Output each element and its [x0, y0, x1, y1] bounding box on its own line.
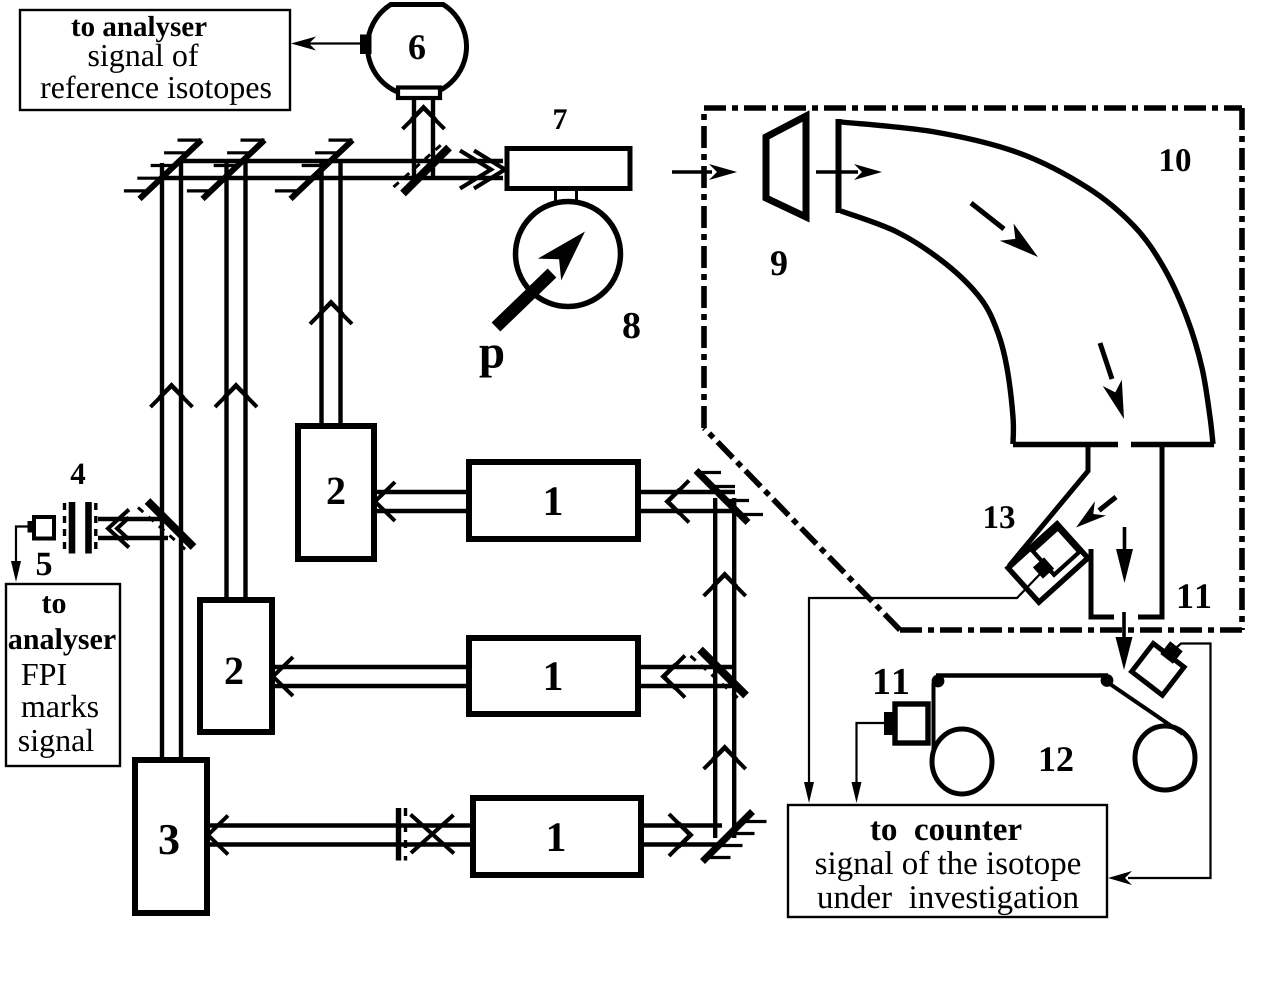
arrow into 13 [1099, 497, 1116, 511]
tape top [936, 673, 1108, 677]
vertical beam 2 [224, 163, 228, 600]
tape guide dot left [932, 675, 945, 688]
laser box 1 (middle) [469, 638, 638, 714]
label 12 [1041, 747, 1073, 771]
beamsplitter at 6 [403, 148, 449, 194]
dye laser box 2 (lower) [200, 600, 272, 732]
pressure gauge 8 [554, 188, 557, 203]
mirror top-right [696, 471, 748, 523]
beam right of 1(top) [638, 509, 735, 513]
beamsplitter to FPI [148, 501, 194, 547]
arrow to lower slit [1123, 527, 1127, 550]
beam crossing mark X [411, 815, 455, 854]
beam to FPI [98, 536, 168, 540]
pump laser box 3 [135, 760, 207, 913]
detector 13 contact [1033, 557, 1054, 578]
label 11 (left) [875, 669, 908, 694]
magnet sector 10 [836, 119, 842, 213]
right beam channel [713, 498, 717, 838]
arrow below chamber [1122, 612, 1126, 638]
slit wall channel [1091, 549, 1114, 617]
tape left segment [932, 683, 936, 753]
detector 11 right contact [1160, 641, 1182, 664]
signal arrow to analyser box [300, 42, 362, 44]
mirror bottom-right [703, 812, 753, 862]
arrow p [496, 273, 552, 327]
mirror M2 [203, 140, 265, 199]
beam 1(mid) to 2(lower) [272, 684, 469, 688]
signal line from detector 11 left [857, 723, 885, 785]
shutter plate on beam to 3 [396, 808, 401, 861]
ion beam arrow (lower) [1100, 343, 1112, 379]
horizontal beam to box 7 [181, 159, 503, 163]
entrance arrow [672, 170, 712, 173]
label 13 [985, 506, 1014, 528]
vacuum chamber border [704, 105, 1242, 111]
mirror M1 [140, 140, 202, 199]
beam right of 1(bottom) [641, 842, 722, 846]
tape reel left [932, 729, 992, 794]
Fabry-Perot interferometer 4 [63, 503, 66, 552]
mirror M3 [291, 140, 353, 199]
signal line from 13 [809, 574, 1040, 785]
tape reel right [1135, 726, 1195, 790]
signal line from 5 to FPI analyser box [16, 527, 28, 567]
text box: to counter / signal of the isotope / under investigation [788, 805, 1107, 917]
text box: to analyser FPI marks signal [6, 584, 120, 766]
vertical beam 3 [319, 163, 323, 426]
frequency meter box 7 [507, 149, 630, 189]
detector 13 crystal [1033, 528, 1080, 575]
ion beam arrow (upper) [971, 203, 1004, 229]
detector 11 right [1132, 644, 1185, 696]
laser box 1 (bottom) [473, 798, 641, 875]
beamsplitter middle-right [700, 650, 746, 696]
laser box 1 (top) [469, 462, 638, 539]
text box: to analyser / signal of reference isotopes [20, 10, 290, 110]
tape diagonal segment [1110, 684, 1183, 734]
signal line from detector 11 right to counter [1128, 644, 1211, 879]
photomultiplier tube 6 [368, 5, 467, 96]
extraction electrode 9 [766, 116, 806, 217]
photodetector 5 [34, 517, 54, 539]
beam 1(top) to 2(upper) [374, 509, 469, 513]
slit wall left [1009, 445, 1088, 566]
vertical beam 1 [160, 163, 164, 760]
detector 13 housing [1008, 524, 1088, 602]
label 11 (in chamber) [1179, 584, 1210, 608]
dye laser box 2 (upper) [298, 426, 374, 559]
detector 11 left [895, 704, 928, 743]
slit wall right [1138, 446, 1162, 617]
arrow into separator [816, 170, 858, 173]
beam 1(bottom) to 3 [207, 842, 473, 846]
tape guide dot right [1101, 674, 1114, 687]
beam right of 1(mid) [638, 684, 735, 688]
laser beam from 6 [412, 98, 416, 176]
